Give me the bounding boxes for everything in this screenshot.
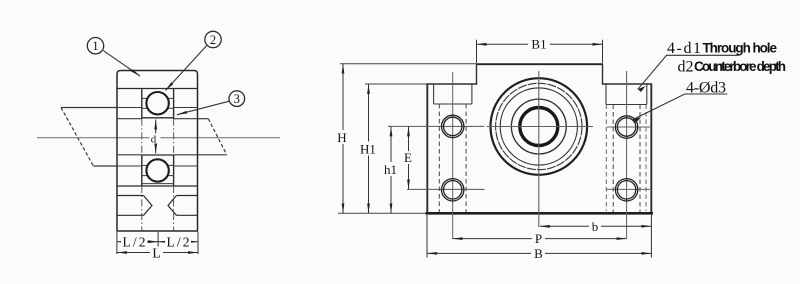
svg-text:2: 2 (210, 33, 216, 47)
dimension L/2 (right) (158, 241, 198, 243)
bolt hole center horizontal bottom-left / E extension (407, 188, 485, 190)
leader: 4-d1 through hole / d2 counterbore (638, 55, 739, 89)
block left edge (426, 84, 428, 213)
leader 3 (177, 101, 229, 115)
step wall right (602, 64, 604, 85)
bolt hole center horizontal top-right (607, 126, 650, 128)
housing lower joint line (117, 185, 198, 187)
bolt hole center vertical left (452, 72, 454, 239)
dimension E (408, 126, 410, 189)
H1 top extension line (365, 83, 427, 85)
housing cap joint line (117, 88, 198, 90)
bolt hole bottom-left (442, 179, 464, 201)
svg-text:d: d (151, 134, 157, 146)
leader 1 (103, 51, 140, 76)
housing bore lines (93, 108, 197, 167)
bolt hole top-left (442, 115, 464, 137)
step wall left (476, 64, 478, 85)
base slot profile (117, 196, 198, 216)
svg-text:b: b (592, 219, 599, 234)
bearing seat circle (scalloped) (496, 83, 582, 169)
dimension L/2 (left) (116, 232, 118, 254)
dimension d (155, 120, 157, 154)
counterbore slot right (606, 85, 647, 105)
svg-text:L: L (152, 245, 160, 260)
bolt hole bottom-right (615, 179, 637, 201)
dimension h1 (390, 126, 392, 213)
block right edge (650, 84, 652, 213)
bearing race bottom line (142, 183, 174, 185)
balloon 3 (229, 91, 245, 107)
side top edge right (602, 83, 652, 85)
dimension H1 (368, 84, 370, 213)
svg-text:h1: h1 (384, 162, 397, 177)
side top edge left (426, 83, 477, 85)
bearing ball (bottom) (146, 159, 168, 181)
dimension L (117, 252, 198, 254)
B extension line left (426, 215, 428, 258)
housing block outline (117, 71, 198, 232)
bearing ball (top) (146, 92, 168, 114)
svg-text:d2: d2 (678, 59, 694, 76)
bolt hole center horizontal bottom-right (606, 188, 650, 190)
svg-text:B1: B1 (531, 37, 546, 52)
dimension B1 (476, 40, 478, 63)
counterbore slot left (434, 85, 472, 105)
svg-text:1: 1 (92, 39, 98, 53)
bolt hole top-right (615, 116, 637, 138)
bearing race grooves (top) (142, 98, 174, 108)
svg-text:B: B (534, 246, 543, 261)
bolt hole center horizontal top-left / h1 E extension (388, 125, 484, 127)
central boss circle (491, 78, 588, 175)
svg-text:Through hole: Through hole (703, 41, 778, 56)
base extension line (left) (338, 212, 426, 214)
counterbore hidden lines right (outer) (606, 105, 646, 212)
dimension B (427, 252, 651, 254)
svg-text:E: E (404, 150, 412, 165)
shaft journal top surface (142, 117, 174, 119)
balloon 2 (205, 31, 221, 47)
svg-text:L/2: L/2 (123, 234, 146, 249)
screw shaft left stub (61, 108, 117, 167)
leader 2 (166, 46, 207, 91)
lock nut circle (511, 99, 566, 154)
through-hole hidden lines left (439, 104, 466, 212)
svg-text:H: H (337, 130, 346, 145)
shaft axis center line (37, 137, 280, 139)
svg-text:H1: H1 (360, 142, 376, 157)
B extension line right (650, 215, 652, 258)
svg-text:Counterbore depth: Counterbore depth (694, 59, 786, 74)
bearing outer circle (500, 88, 577, 165)
H top extension line (340, 63, 477, 65)
bolt hole center vertical right (626, 71, 628, 239)
svg-text:3: 3 (234, 92, 240, 106)
dimension H (342, 64, 344, 214)
svg-text:4-Ød3: 4-Ød3 (686, 79, 726, 96)
screw shaft right stub (198, 119, 227, 155)
svg-text:4-d1: 4-d1 (667, 40, 701, 57)
balloon 1 (87, 38, 103, 54)
raised top edge (477, 63, 603, 65)
through-hole hidden lines right (613, 105, 640, 213)
svg-text:P: P (535, 231, 542, 246)
boss vertical center line (538, 71, 540, 227)
bearing outer race box (top) (142, 89, 174, 119)
shaft journal bottom surface (142, 154, 174, 156)
inner race dash-dot lines (142, 119, 174, 231)
dimension P (453, 238, 627, 240)
boss horizontal center line (487, 126, 594, 128)
bearing race grooves (bottom) (142, 165, 174, 175)
dimension b (540, 225, 652, 227)
leader: 4-Od3 (633, 94, 727, 120)
svg-text:L/2: L/2 (167, 234, 190, 249)
bearing outer race box (bottom) (142, 155, 174, 186)
shaft bore circle (520, 108, 558, 146)
block base (426, 212, 654, 215)
